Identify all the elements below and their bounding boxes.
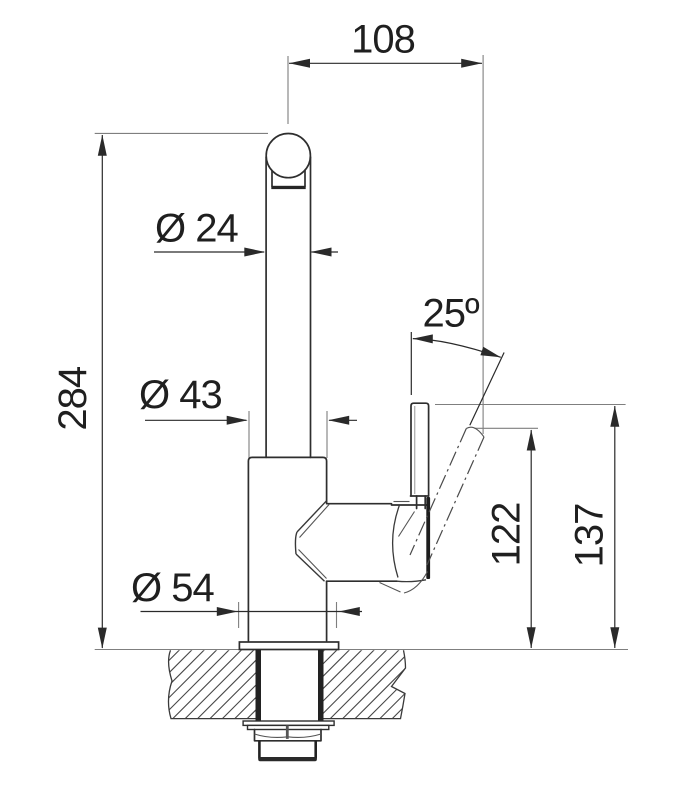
dimension 108 line xyxy=(289,62,482,64)
extension line: 122 top xyxy=(475,427,539,429)
countertop left outline xyxy=(168,650,255,718)
dimension dia24 left segment xyxy=(154,251,264,253)
angle reference vertical line xyxy=(410,332,412,395)
tilted lever bottom arc xyxy=(404,572,428,594)
base plate (dia 54) xyxy=(239,642,338,650)
aerator bottom bar xyxy=(271,186,305,189)
tilted lever phantom right edge (dash-dot) xyxy=(427,437,484,565)
cap chamfer line xyxy=(394,501,410,503)
washer 2 xyxy=(248,725,329,729)
extension line: 284 top xyxy=(95,132,268,134)
extension line: counter level (bottom reference) xyxy=(95,649,628,651)
extension tick: dia43 left xyxy=(248,411,250,458)
dimension 122 line xyxy=(530,430,532,648)
svg-text:Ø 43: Ø 43 xyxy=(139,373,222,417)
center stud xyxy=(286,725,289,739)
extension tick: dia54 left xyxy=(238,602,240,628)
cone chevron lower pair xyxy=(296,554,325,581)
tilted lever bottom line xyxy=(380,583,401,593)
extension line: 137 top xyxy=(435,404,626,406)
shank right wall (thick) xyxy=(318,650,324,721)
svg-text:Ø 24: Ø 24 xyxy=(155,207,238,251)
threaded end xyxy=(259,741,315,759)
extension line: 108 right (tall) xyxy=(482,55,484,434)
threaded end bottom (thick) xyxy=(258,757,317,761)
extension tick: dia43 right xyxy=(326,411,328,458)
side housing bottom edge xyxy=(327,580,397,582)
lever outline xyxy=(411,403,429,496)
tilted lever tip arc xyxy=(466,427,484,437)
shank left wall (thick) xyxy=(256,650,262,721)
angle arc 25deg xyxy=(413,339,501,358)
handle cap right face (thick) xyxy=(426,497,430,579)
dimension dia43 left segment xyxy=(145,419,247,421)
extension line: 108 left xyxy=(287,56,289,124)
dimension 137 line xyxy=(614,406,616,648)
lever bottom edge xyxy=(411,495,429,497)
nut chamfer arcs xyxy=(255,734,322,737)
svg-text:Ø 54: Ø 54 xyxy=(131,566,214,610)
lever inner highlight line xyxy=(414,406,416,494)
svg-text:137: 137 xyxy=(568,504,612,568)
dimension dia43 right segment xyxy=(329,419,357,421)
svg-text:284: 284 xyxy=(51,366,95,430)
spout pipe left wall xyxy=(265,157,267,457)
lever neck xyxy=(416,496,418,509)
tilted lever inner detail line xyxy=(399,512,415,537)
handle cap bottom edge xyxy=(397,580,426,582)
extension tick: dia54 right xyxy=(336,602,338,628)
aerator sides xyxy=(271,171,273,187)
side housing top edge xyxy=(327,503,392,505)
dimension dia54 line xyxy=(141,611,363,613)
cone chevron upper pair xyxy=(297,501,327,532)
angle line (lever axis extension) xyxy=(470,353,504,426)
svg-text:108: 108 xyxy=(351,18,415,62)
svg-text:25º: 25º xyxy=(423,292,480,336)
cone chevron apex arc xyxy=(295,532,297,554)
dimension 284 line xyxy=(101,135,103,648)
handle cap left curve xyxy=(393,505,400,578)
dimension dia24 right segment xyxy=(312,251,339,253)
countertop left hatching xyxy=(98,649,317,719)
spout cap circle xyxy=(266,134,310,178)
body outline (dia 43 cylinder) xyxy=(248,457,326,640)
spout pipe right wall xyxy=(310,157,312,457)
svg-text:122: 122 xyxy=(485,503,529,567)
nut body xyxy=(255,730,322,741)
countertop right outline xyxy=(324,650,406,718)
tilted lever phantom left edge (dash-dot) xyxy=(410,429,466,556)
handle cap top edge xyxy=(392,504,427,506)
washer 1 xyxy=(243,721,334,725)
countertop right hatching xyxy=(256,649,462,719)
